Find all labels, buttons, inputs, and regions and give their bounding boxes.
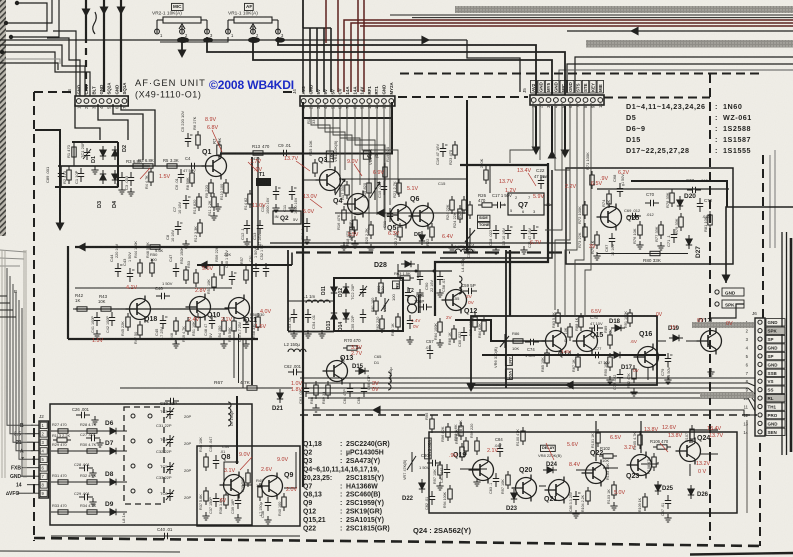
capacitor C44 220 10V: [115, 263, 123, 277]
capacitor C62 .001: [288, 369, 302, 375]
page edge lines right top: [770, 150, 775, 248]
resistor R109 1K: [643, 493, 647, 511]
resistor R12 3.3K: [198, 219, 202, 237]
potentiometer VR7 47K(B): [407, 452, 416, 472]
trimmer TC5: [166, 462, 174, 474]
resistor R40 100: [258, 483, 262, 501]
wire maroon drop 3: [363, 0, 365, 92]
wire D19 to Q17: [686, 340, 698, 342]
wire input block mid rail: [58, 165, 150, 167]
wire nested corner B: [6, 0, 52, 23]
transistor Q4: [344, 191, 369, 218]
wire top bus 4: [0, 39, 467, 41]
node Q8 feed: [236, 461, 239, 464]
wire J3 pin1 down: [75, 104, 100, 140]
ground R54: [220, 340, 227, 348]
capacitor C52 1 50: [263, 263, 269, 277]
wire control bus 3: [304, 387, 748, 389]
resistor R66 1K: [452, 325, 456, 343]
box D11-T2 mixer ring: [334, 278, 403, 331]
resistor R16 47K: [342, 206, 346, 224]
resistor R98 5.6K: [459, 422, 463, 440]
wire AF wiper bus: [253, 37, 552, 95]
diode D22: [419, 479, 425, 493]
capacitor C53 .01: [291, 309, 297, 323]
capacitor C18 .022: [493, 225, 499, 239]
resistor R34 4.7K: [83, 510, 101, 514]
diode D14: [343, 309, 349, 323]
capacitor C60 .022: [461, 327, 467, 341]
wire Q16 emitter: [647, 367, 649, 380]
capacitor C70 .012: [645, 200, 659, 206]
transistor Q12: [442, 287, 467, 314]
capacitor C65 D1: [361, 383, 367, 397]
potentiometer VR5: [381, 298, 389, 312]
wire heavy vertical A: [85, 0, 87, 36]
capacitor C21 47 16V: [531, 225, 539, 239]
ground Q1 divider: [182, 240, 189, 248]
diode D9: [106, 509, 120, 515]
resistor R4 4.7K: [149, 168, 153, 186]
arrow down J5 pin1: [532, 146, 541, 155]
wire heavy Q7 down to VOX: [435, 163, 548, 316]
wire J2 pin 5 lead: [32, 458, 39, 460]
wire heavy vertical A dashed: [85, 36, 87, 96]
wire J3 pin4 down: [98, 104, 128, 140]
inductor L1 1m: [306, 300, 330, 303]
wire bus join TH1: [748, 398, 755, 411]
wire J2 riser 5: [19, 300, 33, 459]
wire filter row 3: [51, 481, 127, 483]
resistor R77 33K: [659, 221, 663, 239]
page edge line right B: [786, 232, 788, 455]
wire L gray stub: [0, 59, 60, 64]
inductor L3: [388, 372, 391, 390]
wire maroon bus 3: [360, 25, 793, 27]
dashed border right: [709, 74, 711, 540]
wire Q10 base rail: [75, 287, 232, 289]
resistor R68 56K: [314, 381, 318, 399]
resistor R10 820: [197, 193, 201, 211]
resistor R18 470: [350, 223, 354, 241]
capacitor C89 .001: [58, 168, 64, 182]
connector GND single top right: [715, 288, 744, 296]
page edge line bottom partial: [690, 553, 793, 555]
wire J4 pin13 drop: [389, 103, 391, 205]
transformer T2: [408, 295, 421, 313]
capacitor C49 4.7 25V: [243, 319, 251, 333]
resistor R6 27K: [196, 131, 200, 149]
wire input block right rail: [117, 142, 119, 187]
connector J5: [522, 80, 604, 108]
ground C3: [127, 188, 134, 196]
boxed label SIDE: [478, 215, 490, 221]
wire input block bottom rail: [55, 186, 118, 188]
diode D3: [100, 170, 106, 184]
left edge tick marks: [0, 296, 16, 317]
transformer T1: [256, 178, 271, 186]
wire J5 pin9 drop: [585, 103, 591, 316]
resistor R105 4.7K: [638, 431, 642, 449]
wire R67 rail: [120, 387, 292, 389]
capacitor C87 .01: [665, 495, 671, 509]
wire heavy Q7 parallel: [440, 170, 552, 258]
wire bus join SSB: [748, 377, 755, 379]
scan edge hatch top-left: [0, 0, 6, 236]
wire R80 rail: [597, 253, 688, 255]
wire control bus 4: [306, 392, 748, 394]
ground C26: [91, 416, 98, 424]
ground R11: [210, 212, 217, 220]
resistor R54 150: [222, 317, 226, 335]
ground D1 mid: [91, 166, 98, 174]
wire heavy into Q8: [236, 396, 238, 464]
wire J2 pin 8 lead: [27, 484, 39, 486]
wire vertical into J4 pin 4: [316, 28, 318, 92]
transistor Q23: [627, 452, 652, 479]
ground R103: [610, 502, 617, 510]
ground C29: [89, 498, 96, 506]
transistor Q9: [258, 473, 283, 500]
wire L into J3 pin4: [53, 31, 76, 96]
wire AF pin1: [160, 37, 228, 42]
capacitor C29 .001: [79, 494, 93, 500]
wire Q23 collector: [641, 462, 658, 464]
inductor L4 470µ: [455, 249, 473, 252]
diode D15: [355, 368, 369, 374]
wire box1 top: [75, 246, 510, 248]
capacitor C30 22P: [165, 398, 179, 404]
wire heavy vertical from J4 pin1: [302, 102, 304, 487]
capacitor C45 4.7 25V: [160, 315, 168, 329]
wire J2 pin 3 lead: [27, 441, 39, 443]
wire top bus 6: [567, 64, 793, 92]
resistor R38 1.8K: [224, 491, 228, 509]
wire heavy vertical C: [120, 0, 122, 92]
resistor R110 100: [224, 179, 228, 197]
ground R92: [630, 388, 637, 396]
diode D12: [343, 283, 349, 297]
wire control bus 1: [300, 377, 748, 379]
ground Q1 emitter: [214, 203, 221, 211]
wire J4 pin12 drop: [383, 103, 385, 210]
capacitor C81 .047: [444, 464, 450, 478]
wire box1 right drop: [509, 250, 511, 316]
ground C90: [416, 289, 423, 297]
resistor R102 10K: [599, 454, 617, 458]
wire input block top rail: [72, 141, 118, 143]
ground Q7 area: [492, 246, 499, 254]
diode D2: [112, 146, 118, 160]
diode D26: [688, 485, 694, 499]
wire J4 pin6 drop: [340, 103, 360, 185]
capacitor C72 .012: [697, 198, 703, 212]
wire J2 pin 2 lead: [25, 433, 39, 435]
wire J4 pin7 drop: [347, 103, 375, 178]
resistor R26 470: [478, 203, 496, 207]
capacitor C90 22 16V: [417, 271, 423, 285]
resistor R96 82K: [446, 423, 450, 441]
resistor R32 4.7K: [83, 480, 101, 484]
resistor R9 220: [209, 179, 213, 197]
resistor R46 5.6K: [150, 259, 154, 277]
dashed border top seg1: [34, 91, 72, 93]
arrow down VOX box left: [467, 383, 476, 392]
resistor VR3 500: [353, 216, 357, 234]
resistor R106 470: [653, 445, 671, 449]
capacitor C78 .022: [617, 369, 623, 383]
IC Q2: [273, 211, 301, 224]
capacitor C28 .001: [79, 465, 93, 471]
diode D8: [106, 479, 120, 485]
terminal circles in dashed box: [131, 414, 152, 493]
resistor R85 10K: [545, 349, 549, 367]
dashed border far right: [762, 155, 764, 318]
capacitor C2 .01: [119, 172, 125, 186]
transistor Q24: [676, 438, 701, 465]
capacitor C51 50V: [253, 263, 259, 277]
ground R90: [606, 376, 613, 384]
inductor L2 150µ: [288, 349, 306, 352]
wire L into J3 pin3: [47, 38, 80, 96]
capacitor C14 .1: [304, 218, 310, 232]
capacitor C64 47P: [347, 383, 353, 397]
boxed label RF: [363, 151, 371, 159]
boxed label ANT: [505, 355, 513, 366]
wire Q16 to D19: [658, 340, 666, 342]
diode D28: [401, 261, 415, 267]
capacitor C11: [387, 208, 393, 222]
resistor R81 10K: [708, 211, 712, 229]
wire MIC out bus: [207, 37, 565, 95]
wire right entry bus: [726, 207, 793, 283]
wire 9V feed heavy: [197, 264, 292, 266]
resistor R41 100: [282, 493, 286, 511]
wire J2 riser 1: [7, 268, 33, 425]
boxed label MIC: [172, 3, 184, 10]
wire top bus 5: [575, 57, 793, 92]
dashed border top seg3: [398, 96, 528, 98]
box Q8-Q9 sidetone amp: [197, 446, 300, 526]
ground C27: [96, 439, 103, 447]
diode D20: [677, 196, 683, 210]
capacitor C71 .1: [671, 229, 677, 243]
resistor R71 100K: [590, 171, 594, 189]
wire top bus 3: [567, 30, 793, 32]
resistor R47 50: [138, 321, 142, 339]
capacitor C57 .01: [427, 345, 433, 359]
resistor R20 2.2K: [369, 221, 373, 239]
resistor R56 22K: [220, 261, 224, 279]
resistor R15 10K: [313, 159, 317, 177]
ground C2: [118, 186, 125, 194]
resistor R89 10K: [608, 331, 612, 349]
IC Q7: [503, 193, 551, 215]
wire top bus 1: [390, 14, 793, 16]
transistor Q10: [186, 294, 211, 321]
wire bus join VS: [748, 383, 755, 386]
wire J2 pin 4 lead: [31, 450, 39, 452]
wire maroon short drop: [325, 0, 327, 43]
wire bus join SS: [748, 388, 755, 394]
ground mixer: [318, 330, 325, 338]
arrow right on top bus 4: [421, 36, 430, 45]
wire VOX input heavy: [455, 320, 505, 341]
wire maroon bus 1: [344, 20, 793, 92]
connector SPK single: [715, 300, 744, 308]
connector J6: [743, 311, 785, 436]
wire 9V feed drop: [291, 253, 293, 266]
wire heavy vertical B: [103, 0, 105, 92]
wire vertical into J4 pin 3: [309, 28, 311, 92]
transistor Q16: [634, 344, 659, 371]
diode D7: [106, 448, 120, 454]
resistor R50 100 inline: [146, 245, 164, 249]
transistor Q25: [597, 204, 622, 231]
wire into Q23 top: [640, 421, 642, 453]
ground Q17: [707, 368, 714, 376]
potentiometer VR1 10K(B): [335, 175, 345, 197]
wire heavy below J5 pin5: [564, 106, 566, 155]
arrow left 9V feed: [199, 261, 208, 270]
ground C53: [290, 330, 297, 338]
wire J4 pin3 drop: [318, 103, 340, 175]
wire maroon drop 1: [337, 0, 339, 92]
capacitor C3 .033: [128, 172, 134, 186]
inductor L6 150µ: [228, 402, 231, 426]
resistor R13 470: [249, 151, 267, 155]
resistor R27 470: [54, 429, 72, 433]
capacitor C67: [609, 233, 615, 247]
wire bottom rail filter: [51, 535, 300, 537]
arrow left on VOX box bottom: [565, 381, 574, 390]
capacitor C63 .01: [303, 383, 309, 397]
transistor Q20: [512, 475, 537, 502]
ground Q25 emitter: [593, 252, 600, 260]
arrow left on top bus 3: [630, 27, 639, 36]
node Q12 rail b: [433, 270, 436, 273]
resistor R50 10K: [212, 273, 216, 291]
trimmer TC6: [166, 489, 174, 501]
boxed label TONE: [478, 222, 490, 228]
resistor R97 10K b: [506, 471, 510, 489]
wire nested corner C: [11, 0, 59, 37]
wire R7 to rail: [218, 155, 220, 158]
wire R1 column: [73, 142, 75, 166]
wire J4 pin9 drop: [362, 103, 398, 195]
potentiometer VR6 330(B): [500, 334, 509, 348]
resistor R3 6.8K: [129, 164, 147, 168]
resistor R33 470: [54, 510, 72, 514]
transistor Q21: [545, 477, 570, 504]
wire vertical into J4 pin 2: [302, 0, 304, 92]
ground R77: [657, 242, 664, 250]
resistor R30 4.7K: [83, 449, 101, 453]
wire bus PRO: [302, 410, 755, 415]
capacitor C84 .047: [497, 443, 503, 457]
wire heavy vertical mid: [251, 157, 253, 385]
capacitor C20: [521, 225, 527, 239]
capacitor C56 100P: [418, 304, 432, 310]
transistor Q22: [582, 460, 607, 487]
resistor R91 100K: [628, 309, 632, 327]
inductor L4 470µ: [459, 276, 462, 294]
resistor R69 33: [326, 381, 330, 399]
box low-pass filter block: [50, 404, 252, 525]
resistor R53 82K: [194, 269, 198, 287]
wire AF top bus: [278, 37, 536, 95]
arrow left mid bus: [372, 406, 381, 415]
wire heavy left drop: [35, 130, 60, 228]
resistor R75 1K: [595, 231, 599, 249]
resistor R100 47K: [521, 427, 525, 445]
resistor R90 10K: [608, 353, 612, 371]
resistor R78 33K: [670, 189, 674, 207]
ground C54: [304, 330, 311, 338]
trimmer TC3: [166, 407, 174, 419]
wire Q7 pin10 out: [544, 204, 552, 206]
resistor R52 150K: [184, 266, 188, 284]
resistor R94: [448, 485, 452, 503]
ground C36: [234, 514, 241, 522]
ground C14: [303, 236, 310, 244]
dashed border top seg2: [283, 91, 296, 93]
transistor Q5: [387, 202, 412, 229]
boxed label AF: [245, 3, 254, 10]
resistor R19 820: [383, 163, 387, 181]
wire 9V rail upper: [339, 178, 467, 180]
wire control bus 5: [308, 397, 748, 399]
capacitor C8 10 16V: [175, 221, 183, 235]
ground C79: [664, 376, 671, 384]
diode D11: [331, 283, 337, 297]
capacitor C82 .01: [429, 491, 435, 505]
wire top bus 7: [559, 70, 793, 92]
dashed border left: [33, 92, 35, 541]
wire J4 pin2 drop: [311, 103, 330, 168]
wire J3 pin7 down: [121, 104, 155, 166]
wire Q25 box inner rail: [597, 188, 729, 190]
wire J2 pin 1 lead: [31, 424, 39, 426]
resistor R98b 5.6K: [464, 437, 468, 455]
halftone band top B: [586, 40, 793, 48]
wire J2 pin 9 lead: [17, 492, 39, 494]
capacitor C19 10 16V: [505, 225, 513, 239]
wire rail above box1 top: [270, 242, 571, 244]
capacitor C83 .1: [493, 473, 499, 487]
arrow up J5 pin3: [548, 150, 557, 159]
capacitor C10 1000 16V: [273, 186, 281, 200]
resistor R67: [243, 386, 261, 390]
capacitor C50 1 50V: [229, 271, 237, 285]
diode D17: [610, 352, 624, 358]
junction blobs under pot terminals: [177, 37, 285, 43]
page edge line bottom left partial: [0, 551, 180, 552]
resistor R61 100: [374, 297, 378, 315]
wire Q22 to Q23: [603, 467, 618, 469]
wire Q24 emitter: [689, 464, 691, 476]
resistor R60 220: [379, 279, 383, 297]
resistor R3 6.8K: [139, 164, 157, 168]
wire J5 pin6 drop: [555, 103, 570, 310]
potentiometer VR2 50K(B): [370, 178, 380, 200]
transistor Q3: [316, 167, 341, 194]
ground C28: [89, 469, 96, 477]
transistor Q8: [220, 472, 245, 499]
resistor R44 100K: [138, 259, 142, 277]
resistor R80 33K: [646, 251, 664, 255]
wire nested corner A: [6, 3, 47, 31]
